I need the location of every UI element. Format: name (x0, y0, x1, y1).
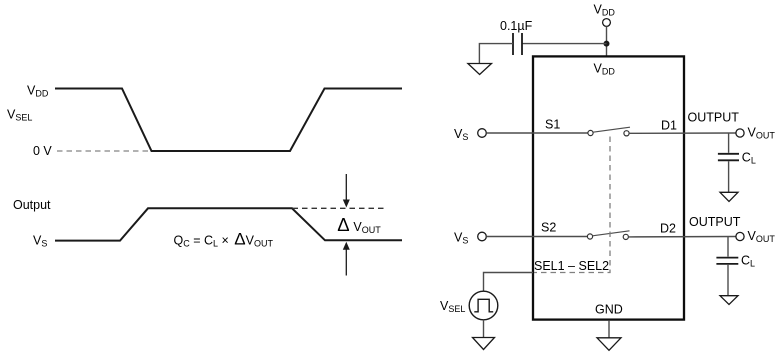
capacitor CL (channel 2) (727, 237, 729, 257)
capacitor CL (channel 1) (728, 133, 730, 153)
svg-text:GND: GND (595, 303, 623, 317)
wire GND pin to ground (608, 321, 610, 338)
svg-text:SEL1 – SEL2: SEL1 – SEL2 (534, 259, 609, 273)
svg-text:S1: S1 (545, 118, 560, 132)
terminal VS1 circle (478, 129, 487, 138)
wire SEL to VSEL source (484, 273, 534, 292)
dashed select line (switch gang) (534, 137, 610, 273)
wire VDD down into box (606, 26, 608, 56)
IC box (533, 56, 684, 319)
arrow down to dashed line (345, 174, 347, 200)
svg-text:OUTPUT: OUTPUT (689, 215, 741, 229)
terminal VOUT2 circle (736, 232, 744, 240)
terminal VOUT1 circle (736, 129, 744, 137)
dashed high-level reference line (293, 207, 387, 209)
wire Output waveform trace (55, 208, 402, 240)
svg-text:Output: Output (13, 198, 51, 212)
terminal VDD circle (603, 19, 611, 27)
ground (GND pin) (597, 338, 621, 351)
svg-text:S2: S2 (541, 221, 556, 235)
source VSEL (pulse generator) (469, 291, 498, 320)
svg-text:0.1µF: 0.1µF (500, 19, 533, 33)
wire VSEL to ground (483, 320, 485, 338)
arrow up to output level (345, 250, 347, 276)
wire D1 to VOUT1 (629, 132, 735, 134)
switch SW2 (587, 234, 592, 239)
junction dot (604, 41, 610, 47)
svg-text:0 V: 0 V (33, 144, 52, 158)
svg-text:Δ: Δ (337, 214, 349, 235)
wire CL2 to ground (727, 265, 729, 296)
wire cap left to ground (479, 44, 513, 64)
ground (decoupling cap) (468, 64, 492, 75)
switch SW1 (588, 130, 593, 135)
svg-text:OUTPUT: OUTPUT (688, 111, 740, 125)
wire D2 to VOUT2 (628, 236, 735, 238)
svg-text:D1: D1 (661, 119, 677, 133)
ground (CL channel 1) (720, 192, 738, 201)
wire VS1 to switch S1 (486, 132, 588, 134)
wire cap to VDD node (522, 43, 607, 45)
wire CL1 to ground (728, 161, 730, 192)
terminal VS2 circle (478, 232, 487, 241)
ground (VSEL) (473, 338, 495, 350)
wire VSEL waveform trace (55, 89, 402, 152)
svg-text:D2: D2 (660, 222, 676, 236)
dashed 0V reference line (57, 150, 150, 152)
ground (CL channel 2) (720, 296, 738, 305)
wire VS2 to switch S2 (486, 236, 587, 238)
